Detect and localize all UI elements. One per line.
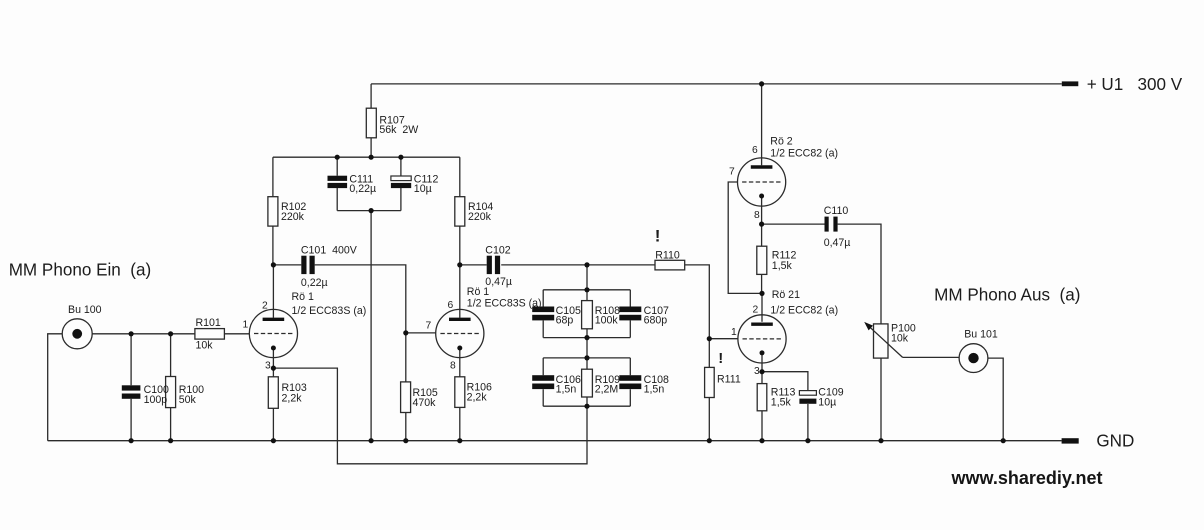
- svg-text:MM Phono Ein (a): MM Phono Ein (a): [9, 261, 152, 280]
- wire network box2 top rail: [543, 357, 630, 359]
- wire R113 leads: [761, 372, 763, 441]
- node ground R105: [403, 438, 408, 443]
- wire Ro2 grid from Ro21 anode node: [728, 182, 762, 293]
- wire C102 to R110: [501, 264, 655, 266]
- wire network box2 bottom rail: [543, 405, 630, 407]
- svg-text:6: 6: [448, 300, 454, 311]
- node filter bottom: [369, 208, 374, 213]
- wire P100 bottom to ground: [880, 358, 882, 441]
- node input R100: [168, 331, 173, 336]
- wire R107 bottom to filter node: [370, 138, 372, 157]
- wire filter bottom link: [337, 210, 401, 212]
- wire Ro21 anode lead: [761, 293, 763, 321]
- svg-text:+ U1 300 V: + U1 300 V: [1087, 75, 1183, 94]
- wire R102 bottom lead to anode node: [272, 226, 274, 265]
- wire +U1 power rail: [371, 83, 1062, 85]
- node filter C111 top: [335, 155, 340, 160]
- node Ro1b grid: [403, 330, 408, 335]
- wire Ro1b anode lead: [459, 265, 461, 318]
- wire R101 to tube pin 1: [224, 333, 249, 335]
- resistor R110: [655, 260, 685, 270]
- wire R111 leads: [708, 339, 710, 441]
- resistor R102: [268, 197, 278, 226]
- wire filter node to ground: [370, 211, 372, 441]
- node ground R100: [168, 438, 173, 443]
- node ground R113: [759, 438, 764, 443]
- svg-text:!: !: [718, 350, 723, 367]
- svg-text:GND: GND: [1096, 432, 1134, 451]
- wire C101 to Ro1b grid: [315, 265, 436, 333]
- wire R106 bottom lead: [459, 407, 461, 440]
- svg-text:R111: R111: [717, 374, 741, 386]
- node ground P100: [878, 438, 883, 443]
- resistor R104: [455, 197, 465, 226]
- svg-text:0,47µ: 0,47µ: [485, 276, 512, 288]
- node Ro21 grid: [707, 336, 712, 341]
- triode Ro1a: [249, 309, 297, 357]
- node Ro1b anode: [457, 262, 462, 267]
- svg-text:C110: C110: [824, 205, 849, 217]
- wire top filter bus node: [273, 156, 460, 158]
- node ground C100: [129, 438, 134, 443]
- triode Ro1b: [436, 309, 484, 357]
- svg-text:3: 3: [265, 361, 271, 372]
- wire Ro21 grid entry: [709, 338, 738, 340]
- wire Ro2 cathode to node: [761, 196, 763, 225]
- wire R102 top lead: [272, 157, 274, 197]
- capacitor C108: [619, 375, 641, 389]
- wire Ro1a cathode to pin3 node: [272, 348, 274, 368]
- node Ro21 anode R112: [759, 291, 764, 296]
- capacitor C109 electrolytic: [799, 391, 816, 404]
- wire R112 leads: [761, 224, 763, 293]
- svg-text:7: 7: [426, 321, 432, 332]
- resistor R106: [455, 377, 465, 408]
- capacitor C112 electrolytic: [391, 176, 411, 188]
- terminal GND: [1062, 438, 1079, 443]
- node network bottom: [584, 404, 589, 409]
- node Ro2 cathode: [759, 222, 764, 227]
- resistor R103: [268, 377, 278, 409]
- node network top: [584, 287, 589, 292]
- capacitor C110: [825, 217, 838, 232]
- svg-text:2: 2: [753, 305, 759, 316]
- wire anode node to C102: [460, 264, 487, 266]
- svg-text:6: 6: [752, 145, 758, 156]
- node ground R103: [271, 438, 276, 443]
- wire R100 leads: [170, 334, 172, 441]
- wire network box1 top rail: [543, 289, 630, 291]
- node ground R111: [707, 438, 712, 443]
- wire pin3 node to C109: [762, 372, 808, 441]
- node ground C109: [805, 438, 810, 443]
- wire C110 to P100 top: [838, 224, 881, 324]
- resistor R109: [582, 369, 593, 397]
- potentiometer P100: [864, 322, 902, 358]
- svg-text:7: 7: [729, 167, 735, 178]
- wire rail to Ro2 anode: [761, 84, 763, 165]
- wire C100 leads: [130, 334, 132, 441]
- capacitor C106: [532, 375, 554, 389]
- wire input node Bu100 to R101: [92, 333, 195, 335]
- node Ro1a anode: [271, 262, 276, 267]
- capacitor C101: [301, 256, 314, 274]
- node C102 R110: [584, 262, 589, 267]
- svg-text:R104220k: R104220k: [468, 201, 493, 223]
- svg-text:2: 2: [262, 301, 268, 312]
- node filter R107 bottom: [369, 155, 374, 160]
- svg-text:R108100k: R108100k: [595, 305, 620, 327]
- wire cathode node to C110: [762, 223, 825, 225]
- wire C106 leads: [542, 358, 544, 406]
- svg-text:www.sharediy.net: www.sharediy.net: [951, 468, 1103, 488]
- node ground R106: [457, 438, 462, 443]
- triode Ro2: [738, 158, 786, 206]
- resistor R112: [757, 246, 767, 274]
- wire C112 leads: [400, 157, 402, 210]
- svg-text:8: 8: [754, 210, 760, 221]
- svg-text:C101 400V: C101 400V: [301, 245, 358, 257]
- wire Ro1a anode lead: [272, 265, 274, 318]
- svg-text:3: 3: [754, 366, 760, 377]
- capacitor C107: [619, 307, 641, 321]
- terminal +U1: [1062, 81, 1079, 86]
- capacitor C102: [487, 256, 500, 274]
- resistor R113: [757, 384, 767, 411]
- resistor R100: [166, 377, 176, 408]
- wire network box link: [586, 338, 588, 358]
- wire C105 leads: [542, 290, 544, 338]
- svg-text:0,47µ: 0,47µ: [824, 237, 851, 249]
- connector Bu101: [959, 344, 988, 373]
- wire R104 bottom lead to anode node: [459, 226, 461, 265]
- wire R109 leads: [586, 358, 588, 406]
- node ground Bu101: [1001, 438, 1006, 443]
- svg-text:1: 1: [243, 320, 249, 331]
- svg-text:R1092,2M: R1092,2M: [595, 374, 620, 396]
- capacitor C100: [122, 385, 141, 399]
- svg-text:1: 1: [731, 327, 737, 338]
- wire R110 to Ro21 grid: [685, 265, 710, 339]
- triode Ro21: [738, 315, 786, 363]
- connector Bu100: [62, 319, 92, 349]
- svg-text:C1110,22µ: C1110,22µ: [349, 174, 376, 196]
- wire anode node to C101: [273, 264, 301, 266]
- wire R105 leads: [405, 333, 407, 441]
- svg-text:R101: R101: [196, 317, 221, 329]
- wire rail corner down to R107: [370, 84, 372, 108]
- svg-text:Bu 100: Bu 100: [68, 304, 102, 316]
- svg-text:MM Phono Aus (a): MM Phono Aus (a): [934, 286, 1080, 305]
- wire node to RIAA network top: [586, 265, 588, 290]
- node network mid1: [584, 335, 589, 340]
- wire feedback path pin3 to network bottom: [273, 368, 587, 464]
- svg-text:C107680p: C107680p: [644, 305, 669, 327]
- node input C100: [129, 331, 134, 336]
- resistor R101: [195, 329, 225, 340]
- svg-text:R110: R110: [655, 250, 680, 262]
- node rail Ro2: [759, 81, 764, 86]
- wire R104 top lead: [459, 157, 461, 197]
- wire network box1 bottom rail: [543, 337, 630, 339]
- capacitor C105: [532, 307, 554, 321]
- wire P100 wiper to Bu101: [903, 356, 960, 358]
- resistor R107: [366, 108, 376, 138]
- wire C111 leads: [336, 157, 338, 210]
- node network mid2: [584, 355, 589, 360]
- svg-text:C102: C102: [485, 245, 510, 257]
- svg-text:Bu 101: Bu 101: [964, 329, 998, 341]
- capacitor C111: [328, 176, 348, 188]
- svg-text:0,22µ: 0,22µ: [301, 277, 328, 289]
- wire C108 leads: [629, 358, 631, 406]
- wire R103 leads: [272, 368, 274, 441]
- node Ro1a pin3: [271, 366, 276, 371]
- svg-text:R105470k: R105470k: [413, 387, 438, 409]
- resistor R108: [582, 301, 593, 329]
- resistor R111: [705, 367, 715, 397]
- svg-text:R102220k: R102220k: [281, 201, 306, 223]
- svg-text:8: 8: [450, 361, 456, 372]
- svg-text:C100100p: C100100p: [144, 384, 169, 406]
- wire Bu101 to ground: [988, 358, 1003, 441]
- svg-text:!: !: [655, 226, 661, 245]
- wire R108 leads: [586, 290, 588, 338]
- node Ro21 pin3: [759, 369, 764, 374]
- wire Ro21 cathode to pin3 node: [761, 353, 763, 372]
- node filter C112 top: [398, 155, 403, 160]
- wire C107 leads: [629, 290, 631, 338]
- wire Ro1b cathode lead: [459, 348, 461, 377]
- node ground filter: [369, 438, 374, 443]
- svg-text:10k: 10k: [196, 340, 214, 352]
- wire ground rail: [48, 440, 1062, 442]
- resistor R105: [401, 382, 411, 413]
- wire Bu100 shield to ground: [48, 334, 63, 441]
